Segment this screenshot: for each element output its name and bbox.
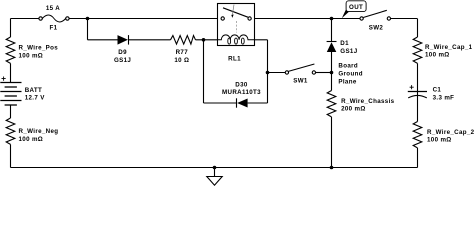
- junction ground stub / bottom rail: [213, 166, 217, 170]
- svg-text:RL1: RL1: [228, 55, 241, 62]
- resistor R_Wire_Cap_1: [413, 37, 422, 63]
- wire D9 branch vertical drop from top wire: [87, 19, 89, 40]
- wire fuse F1 to relay RL1 box (through node at x=87.5): [69, 18, 217, 20]
- battery BATT plates: [0, 82, 21, 84]
- svg-text:R_Wire_Pos: R_Wire_Pos: [19, 45, 59, 52]
- switch SW1: [285, 71, 288, 74]
- wire D30 loop left vertical: [203, 40, 205, 103]
- svg-text:100 mΩ: 100 mΩ: [19, 136, 44, 143]
- svg-text:Plane: Plane: [338, 78, 356, 85]
- relay RL1 dashed coupling link: [236, 21, 238, 33]
- wire R_Wire_Cap_1 to C1: [417, 63, 419, 91]
- relay RL1 switch terminals: [221, 17, 224, 20]
- switch SW2: [360, 17, 363, 20]
- resistor R77: [171, 36, 196, 45]
- junction chassis branch / bottom rail: [330, 166, 334, 170]
- ground stub wire: [214, 168, 216, 177]
- svg-text:MURA110T3: MURA110T3: [222, 89, 261, 96]
- wire left branch, corner down to R_Wire_Pos: [10, 19, 12, 38]
- capacitor C1: [408, 91, 427, 93]
- fuse F1: [39, 17, 42, 20]
- diode D1: [327, 41, 337, 43]
- relay RL1 box: [218, 4, 255, 46]
- wire C1 to R_Wire_Cap_2: [417, 92, 419, 122]
- resistor R_Wire_Pos: [6, 37, 15, 63]
- wire D9 cathode to R77: [129, 39, 171, 41]
- svg-text:R_Wire_Cap_1: R_Wire_Cap_1: [425, 44, 473, 51]
- svg-text:Ground: Ground: [338, 70, 362, 77]
- wire battery to R_Wire_Neg: [10, 105, 12, 118]
- relay RL1 coil: [218, 35, 255, 40]
- capacitor C1 plus sign: [410, 85, 414, 89]
- wire mid vertical upper (OUT node to D1 cathode): [331, 19, 333, 42]
- junction SW1 / board ground plane net: [330, 71, 334, 75]
- battery positive terminal plus sign: [2, 77, 6, 81]
- resistor R_Wire_Chassis: [327, 91, 336, 117]
- bottom ground rail wire: [11, 167, 418, 169]
- resistor R_Wire_Neg: [6, 118, 15, 144]
- wire D30 row left: [204, 102, 237, 104]
- wire relay RL1 to switch SW2: [254, 18, 360, 20]
- svg-text:10 Ω: 10 Ω: [174, 57, 189, 64]
- junction D9 branch / top wire: [86, 17, 90, 21]
- wire node to SW1 left terminal: [268, 72, 286, 74]
- svg-text:GS1J: GS1J: [114, 57, 131, 64]
- svg-text:R77: R77: [176, 49, 189, 56]
- svg-text:OUT: OUT: [349, 4, 363, 11]
- svg-text:BATT: BATT: [25, 87, 42, 94]
- wire node to diode D9 anode: [88, 39, 118, 41]
- relay RL1 switch blade: [223, 8, 248, 17]
- wire D1 anode to R_Wire_Chassis: [331, 52, 333, 91]
- svg-text:SW2: SW2: [369, 24, 384, 31]
- wire R77 to relay coil: [196, 39, 218, 41]
- relay RL1 coil loops: [228, 38, 231, 44]
- svg-text:R_Wire_Chassis: R_Wire_Chassis: [341, 98, 395, 105]
- svg-text:C1: C1: [433, 86, 442, 93]
- wire right branch lower: [417, 148, 419, 168]
- net flag OUT box: [346, 1, 366, 12]
- svg-text:100 mΩ: 100 mΩ: [425, 51, 450, 58]
- svg-text:F1: F1: [50, 25, 58, 32]
- svg-text:R_Wire_Cap_2: R_Wire_Cap_2: [427, 129, 474, 136]
- diode D9: [128, 35, 130, 45]
- diode D30: [236, 98, 238, 107]
- svg-text:3.3 mF: 3.3 mF: [433, 94, 455, 101]
- junction node OUT on top wire: [330, 17, 334, 21]
- relay RL1 actuator arrow: [232, 5, 234, 15]
- svg-text:D30: D30: [235, 82, 248, 89]
- net flag OUT pointer: [342, 9, 350, 18]
- svg-text:12.7 V: 12.7 V: [25, 95, 46, 102]
- svg-text:Board: Board: [338, 62, 358, 69]
- resistor R_Wire_Cap_2: [413, 122, 422, 148]
- svg-text:100 mΩ: 100 mΩ: [19, 52, 44, 59]
- wire right branch upper: [417, 19, 419, 38]
- wire top-left corner to fuse F1 left terminal: [11, 18, 39, 20]
- wire R_Wire_Neg to bottom-left corner: [10, 144, 12, 167]
- junction R77 / relay coil / D30 loop: [202, 38, 206, 42]
- wire R_Wire_Chassis to bottom rail: [331, 117, 333, 168]
- svg-text:D9: D9: [118, 49, 127, 56]
- wire R_Wire_Pos to battery: [10, 63, 12, 82]
- svg-text:R_Wire_Neg: R_Wire_Neg: [19, 128, 59, 135]
- svg-text:200 mΩ: 200 mΩ: [341, 105, 366, 112]
- wire D30 loop right vertical: [267, 40, 269, 103]
- svg-text:15 A: 15 A: [46, 5, 60, 12]
- svg-text:SW1: SW1: [293, 77, 308, 84]
- svg-text:GS1J: GS1J: [340, 48, 357, 55]
- svg-text:D1: D1: [340, 40, 349, 47]
- wire D30 row right: [248, 102, 268, 104]
- svg-text:100 mΩ: 100 mΩ: [427, 137, 452, 144]
- wire SW2 to top-right corner: [391, 18, 418, 20]
- wire relay coil exit: [255, 39, 268, 41]
- wire SW1 to board ground plane node: [316, 72, 332, 74]
- ground symbol: [207, 177, 222, 186]
- junction coil return / SW1: [266, 71, 270, 75]
